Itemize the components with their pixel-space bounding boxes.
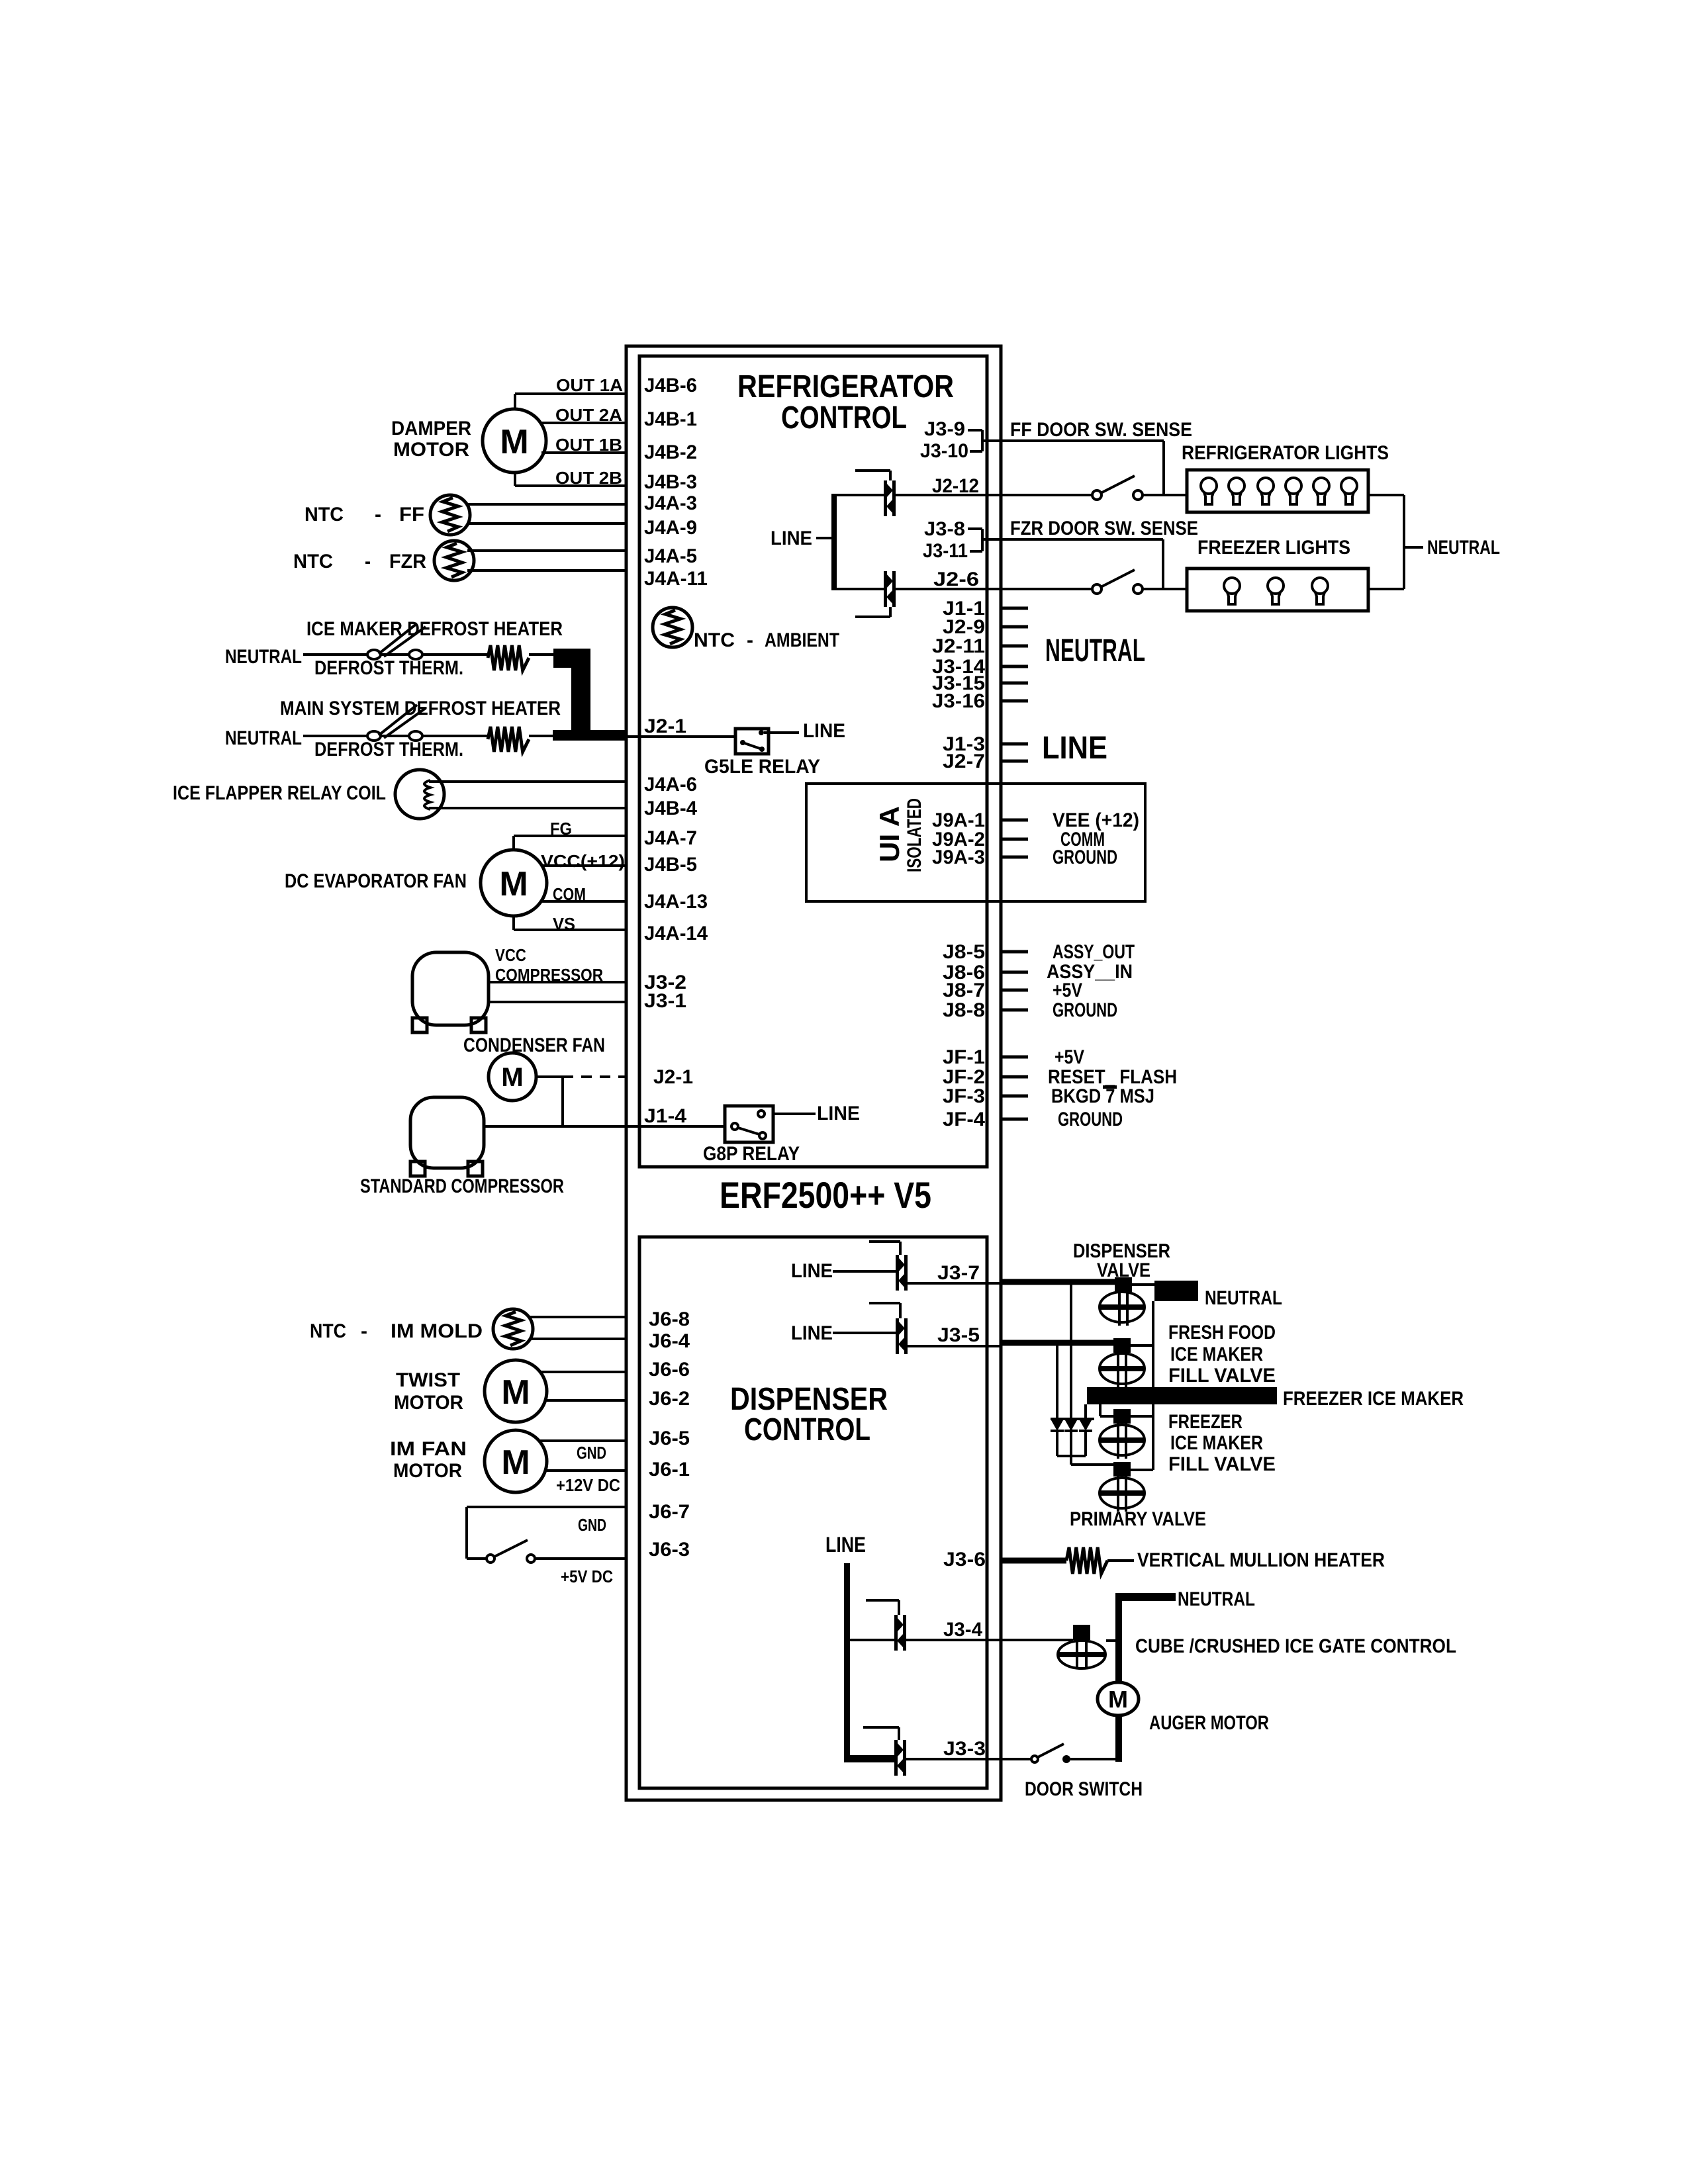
svg-text:J6-3: J6-3 — [649, 1539, 690, 1561]
svg-text:ICE MAKER DEFROST HEATER: ICE MAKER DEFROST HEATER — [306, 618, 563, 640]
pin tick J1-3 — [1001, 743, 1028, 746]
svg-text:M: M — [501, 1063, 523, 1092]
thermistor NTC - IM MOLD — [493, 1309, 533, 1349]
thick freezer ice maker feed bar — [1087, 1387, 1277, 1404]
ice maker defrost switch arm — [379, 623, 426, 657]
svg-text:M: M — [501, 1373, 530, 1412]
svg-text:CONTROL: CONTROL — [744, 1412, 870, 1447]
svg-text:LINE: LINE — [803, 720, 845, 742]
svg-text:+12V DC: +12V DC — [556, 1475, 620, 1495]
refrigerator light bulb 1 — [1201, 478, 1217, 504]
triac J3-3 gate hook — [863, 1727, 899, 1740]
freezer light bulb 2 — [1268, 578, 1284, 604]
freezer light bulb 1 — [1224, 578, 1240, 604]
svg-text:FF: FF — [399, 504, 424, 525]
svg-text:FILL VALVE: FILL VALVE — [1168, 1453, 1276, 1475]
wire LINE to triac J3-5 — [833, 1332, 896, 1334]
triac J3-4 — [894, 1615, 906, 1651]
freezer ice maker fill valve — [1100, 1409, 1145, 1459]
wire NTC FZR to J4A-11 — [467, 569, 626, 572]
svg-text:J3-3: J3-3 — [943, 1738, 986, 1760]
svg-text:J4A-11: J4A-11 — [644, 568, 708, 590]
svg-text:LINE: LINE — [825, 1533, 866, 1557]
svg-text:GND: GND — [577, 1443, 606, 1463]
VCC compressor — [412, 952, 489, 1032]
diode 1 (valve logic) — [1051, 1420, 1064, 1456]
pin tick J2-7 — [1001, 760, 1028, 763]
wire neutral to main defrost switch — [303, 735, 367, 737]
triac J2-12 — [884, 480, 896, 516]
svg-text:J2-7: J2-7 — [943, 751, 985, 772]
outer control board box — [626, 346, 1001, 1800]
wire flapper coil to J4A-6 — [429, 780, 626, 783]
label DISPENSER VALVE — [1073, 1240, 1170, 1281]
wire LINE bus to triac J2-12 — [837, 494, 884, 496]
wire NTC FF to J4A-9 — [467, 522, 626, 525]
svg-text:OUT 2B: OUT 2B — [555, 468, 622, 488]
svg-text:OUT 1B: OUT 1B — [555, 435, 622, 455]
wire J2-1 to G5LE relay — [627, 735, 735, 738]
pin tick J3-16 — [1001, 700, 1028, 703]
label TWIST MOTOR — [394, 1369, 463, 1414]
wire dispenser line down to primary valve — [1071, 1285, 1113, 1465]
svg-text:J4A-13: J4A-13 — [644, 891, 708, 913]
svg-text:J4A-5: J4A-5 — [644, 545, 697, 567]
pin tick J9A-3 — [1001, 856, 1028, 859]
svg-text:REFRIGERATOR: REFRIGERATOR — [737, 369, 954, 404]
refrigerator control inner box — [639, 356, 987, 1167]
wire twist motor to J6-6 — [540, 1371, 626, 1373]
freezer light bulb 3 — [1312, 578, 1328, 604]
svg-text:M: M — [499, 865, 528, 903]
main defrost heater resistor — [488, 727, 529, 752]
svg-text:+5V: +5V — [1053, 979, 1082, 1001]
svg-text:VS: VS — [553, 914, 575, 934]
svg-text:STANDARD COMPRESSOR: STANDARD COMPRESSOR — [360, 1175, 564, 1197]
svg-text:CONTROL: CONTROL — [781, 400, 907, 435]
title REFRIGERATOR CONTROL — [737, 369, 954, 435]
ice maker defrost thermostat contact left — [367, 650, 381, 659]
stub gate valve to auger bus — [1106, 1639, 1115, 1642]
wire VS to J4A-14 — [514, 915, 626, 930]
triac J3-7 — [896, 1255, 908, 1291]
neutral bar (auger bus) — [1115, 1593, 1176, 1601]
svg-text:OUT 2A: OUT 2A — [555, 405, 622, 425]
wire VCC compressor to J3-2 — [489, 981, 626, 983]
svg-text:M: M — [500, 423, 528, 461]
pin tick J2-11 — [1001, 645, 1028, 648]
damper motor M — [483, 409, 546, 473]
dashed wire condenser fan to J2-1 — [563, 1075, 626, 1078]
svg-text:NTC: NTC — [694, 629, 735, 651]
pin tick JF-1 — [1001, 1056, 1028, 1059]
svg-text:J3-9: J3-9 — [924, 418, 965, 440]
thermistor NTC - FZR — [434, 541, 474, 580]
wire LINE bus to triac J3-4 — [850, 1639, 894, 1641]
svg-text:FREEZER LIGHTS: FREEZER LIGHTS — [1197, 537, 1350, 559]
svg-text:-: - — [361, 1320, 367, 1342]
svg-text:J3-6: J3-6 — [943, 1549, 986, 1570]
IM fan motor M — [485, 1430, 547, 1492]
twist motor M — [485, 1360, 547, 1422]
svg-text:J3-16: J3-16 — [932, 690, 985, 712]
svg-text:J4A-3: J4A-3 — [644, 492, 697, 514]
svg-text:FREEZER ICE MAKER: FREEZER ICE MAKER — [1283, 1388, 1464, 1410]
svg-text:J3-10: J3-10 — [920, 440, 968, 462]
fresh food ice maker fill valve — [1100, 1338, 1145, 1387]
svg-text:J4B-1: J4B-1 — [644, 408, 697, 430]
wire FG to J4A-7 — [514, 836, 626, 850]
svg-text:IM FAN: IM FAN — [390, 1438, 467, 1460]
svg-text:OUT 1A: OUT 1A — [556, 375, 623, 395]
wire refrigerator lights to neutral bus — [1368, 494, 1404, 496]
wire condenser fan to junction — [536, 1077, 563, 1126]
wire NTC FF to J4A-3 — [467, 503, 626, 506]
wire door switch to auger bus — [1070, 1758, 1115, 1760]
svg-text:J4A-6: J4A-6 — [644, 774, 697, 796]
svg-text:IM MOLD: IM MOLD — [391, 1320, 483, 1342]
svg-text:J6-7: J6-7 — [649, 1501, 690, 1523]
svg-text:+5V DC: +5V DC — [561, 1567, 613, 1586]
svg-text:ERF2500++ V5: ERF2500++ V5 — [720, 1174, 931, 1216]
condenser fan motor M — [489, 1053, 536, 1101]
pin tick JF-3 — [1001, 1095, 1028, 1098]
svg-text:NEUTRAL: NEUTRAL — [1178, 1588, 1255, 1610]
dispenser control inner box — [639, 1237, 987, 1788]
wire G8P relay to LINE — [773, 1113, 816, 1115]
wire switch to freezer lights — [1143, 588, 1187, 590]
dispenser valve — [1100, 1277, 1145, 1326]
wire VCC compressor to J3-1 — [489, 1001, 626, 1003]
wire VCC(+12) to J4B-5 — [542, 864, 626, 867]
svg-text:J1-4: J1-4 — [644, 1105, 686, 1127]
triac J2-12 gate hook — [855, 471, 890, 480]
label NTC - AMBIENT — [694, 629, 839, 651]
label FRESH FOOD ICE MAKER FILL VALVE — [1168, 1322, 1276, 1387]
svg-text:FRESH FOOD: FRESH FOOD — [1168, 1322, 1276, 1343]
wire flapper coil to J4B-4 — [429, 807, 626, 809]
svg-text:ISOLATED: ISOLATED — [904, 798, 925, 872]
svg-text:GROUND: GROUND — [1058, 1109, 1123, 1130]
ice maker defrost heater resistor — [488, 645, 529, 670]
thick defrost junction bar to J2-1 — [553, 649, 626, 741]
pin tick J9A-1 — [1001, 819, 1028, 822]
wire switch to refrigerator lights — [1143, 494, 1187, 496]
neutral bar (dispenser valve) — [1154, 1281, 1198, 1301]
svg-text:FG: FG — [550, 819, 572, 839]
+5V DC switch — [487, 1540, 535, 1563]
label NTC - FF — [305, 504, 424, 525]
wire between ice maker defrost contacts — [381, 653, 409, 656]
svg-text:J3-4: J3-4 — [943, 1619, 982, 1641]
svg-text:J3-11: J3-11 — [923, 540, 968, 562]
svg-text:AUGER MOTOR: AUGER MOTOR — [1149, 1712, 1269, 1734]
thick wire J3-7 to dispenser valve — [1001, 1279, 1115, 1285]
wire freezer bar to freezer fill valve — [1100, 1404, 1113, 1416]
svg-text:J3-7: J3-7 — [937, 1262, 980, 1284]
svg-text:GROUND: GROUND — [1053, 846, 1117, 868]
ice maker defrost thermostat contact right — [409, 650, 422, 659]
svg-text:VERTICAL MULLION HEATER: VERTICAL MULLION HEATER — [1137, 1549, 1385, 1571]
relay G8P — [725, 1106, 773, 1142]
wire freezer bar down to diode — [1084, 1404, 1087, 1419]
svg-text:ICE MAKER: ICE MAKER — [1170, 1343, 1263, 1365]
diode 2 (valve logic) — [1064, 1420, 1078, 1456]
wire triac J3-4 to cube/crushed valve — [906, 1639, 1073, 1641]
svg-text:J6-1: J6-1 — [649, 1459, 690, 1480]
svg-text:DEFROST THERM.: DEFROST THERM. — [314, 739, 463, 760]
svg-text:NEUTRAL: NEUTRAL — [1427, 537, 1500, 559]
svg-text:AMBIENT: AMBIENT — [765, 629, 839, 651]
svg-text:J9A-3: J9A-3 — [932, 846, 985, 868]
refrigerator light bulb 3 — [1258, 478, 1274, 504]
svg-text:J6-5: J6-5 — [649, 1428, 690, 1449]
wire triac J3-7 to box edge — [906, 1282, 1001, 1285]
triac J3-5 — [896, 1318, 908, 1354]
svg-text:CONDENSER FAN: CONDENSER FAN — [463, 1034, 605, 1056]
wire J2-6 to freezer light switch — [896, 588, 1092, 590]
freezer door switch — [1092, 570, 1143, 594]
svg-text:LINE: LINE — [791, 1322, 833, 1344]
relay G5LE — [735, 729, 769, 754]
thermistor NTC - FF — [430, 495, 470, 535]
svg-text:J6-2: J6-2 — [649, 1388, 690, 1410]
pin tick J9A-2 — [1001, 838, 1028, 841]
svg-text:GND: GND — [578, 1515, 606, 1535]
svg-text:LINE: LINE — [817, 1103, 860, 1124]
triac J3-7 gate hook — [869, 1242, 900, 1255]
svg-text:DOOR SWITCH: DOOR SWITCH — [1025, 1778, 1143, 1800]
svg-text:NTC: NTC — [305, 504, 344, 525]
svg-text:J4A-9: J4A-9 — [644, 517, 697, 539]
svg-text:LINE: LINE — [791, 1260, 833, 1282]
svg-text:G8P RELAY: G8P RELAY — [703, 1143, 800, 1165]
svg-text:J4B-4: J4B-4 — [644, 797, 697, 819]
wire LINE stub — [816, 537, 831, 539]
wire LINE bus to triac J2-6 — [837, 588, 884, 590]
wire NTC IM mold to J6-4 — [530, 1338, 626, 1340]
wire freezer lights to neutral bus — [1368, 588, 1404, 590]
svg-text:NEUTRAL: NEUTRAL — [1045, 633, 1145, 668]
svg-text:FF DOOR SW. SENSE: FF DOOR SW. SENSE — [1010, 419, 1192, 441]
label BKGD / MSJ — [1051, 1085, 1154, 1107]
label FREEZER ICE MAKER FILL VALVE — [1168, 1411, 1276, 1475]
freezer lights box — [1187, 569, 1368, 611]
main defrost switch arm — [379, 705, 426, 738]
refrigerator light bulb 4 — [1286, 478, 1301, 504]
UI A isolated box — [806, 784, 1145, 901]
refrigerator light bulb 2 — [1229, 478, 1244, 504]
svg-text:J6-6: J6-6 — [649, 1359, 690, 1381]
ice flapper relay coil — [395, 770, 444, 819]
wire G5LE relay to LINE — [764, 731, 799, 734]
wire OUT 2B to J4B-3 — [515, 472, 626, 486]
wire triac J3-3 to door switch — [906, 1758, 1031, 1760]
label NTC - FZR — [293, 551, 426, 572]
svg-text:J3-8: J3-8 — [924, 518, 965, 540]
pin tick J8-7 — [1001, 989, 1028, 992]
wire IM fan motor to J6-1 — [545, 1469, 626, 1472]
wire OUT 2A to J4B-1 — [541, 422, 626, 424]
DC evaporator fan motor M — [481, 850, 547, 916]
label VCC COMPRESSOR — [495, 945, 603, 985]
label NTC - IM MOLD — [310, 1320, 483, 1342]
wire neutral to ice maker defrost switch — [303, 653, 367, 656]
wire twist motor to J6-2 — [545, 1399, 626, 1402]
wire +5V DC switch to J6-3 — [535, 1557, 626, 1560]
svg-text:J4B-2: J4B-2 — [644, 441, 697, 463]
svg-text:-: - — [365, 551, 371, 572]
svg-text:NEUTRAL: NEUTRAL — [225, 727, 302, 749]
wire ice maker heater to junction bar — [529, 653, 555, 656]
wire mullion heater to label — [1107, 1559, 1134, 1562]
svg-text:MOTOR: MOTOR — [393, 439, 469, 461]
neutral bus vertical (lights) — [1403, 495, 1405, 589]
wire contact to main heater — [422, 735, 488, 737]
svg-text:ICE FLAPPER RELAY COIL: ICE FLAPPER RELAY COIL — [173, 782, 386, 804]
wire J2-12 to refrigerator light switch — [896, 494, 1092, 496]
svg-text:NEUTRAL: NEUTRAL — [1205, 1287, 1282, 1309]
svg-text:LINE: LINE — [1042, 731, 1107, 766]
svg-text:J4B-6: J4B-6 — [644, 375, 697, 396]
triac J3-3 — [894, 1740, 906, 1776]
refrigerator lights box — [1187, 470, 1368, 512]
svg-text:DC EVAPORATOR FAN: DC EVAPORATOR FAN — [285, 870, 467, 892]
wire FF door switch sense — [982, 441, 1164, 495]
bracket J3-8/J3-11 — [968, 529, 982, 551]
svg-text:TWIST: TWIST — [396, 1369, 460, 1391]
svg-text:J4B-3: J4B-3 — [644, 471, 697, 493]
label DAMPER MOTOR — [391, 418, 471, 461]
svg-text:VCC(+12): VCC(+12) — [541, 851, 625, 871]
triac J2-6 — [884, 571, 896, 607]
refrigerator light bulb 6 — [1341, 478, 1357, 504]
stub dispenser valve to neutral bus — [1132, 1283, 1154, 1286]
thermistor NTC - AMBIENT — [653, 608, 692, 647]
svg-text:J8-8: J8-8 — [943, 999, 985, 1021]
svg-text:FREEZER: FREEZER — [1168, 1411, 1243, 1433]
refrigerator light bulb 5 — [1313, 478, 1329, 504]
wire fresh food line down to diode — [1056, 1345, 1058, 1419]
wire FZR door switch sense — [982, 539, 1163, 589]
main defrost thermostat contact left — [367, 731, 381, 741]
svg-text:J2-6: J2-6 — [933, 569, 979, 590]
svg-text:J3-1: J3-1 — [644, 990, 686, 1012]
svg-text:LINE: LINE — [771, 527, 812, 549]
pin tick JF-2 — [1001, 1075, 1028, 1079]
diode pack top bar — [1051, 1418, 1094, 1420]
cube/crushed ice gate valve — [1058, 1625, 1106, 1668]
wire standard compressor to J1-4 and G8P relay — [484, 1125, 725, 1128]
svg-text:ASSY_OUT: ASSY_OUT — [1053, 941, 1135, 963]
svg-text:MOTOR: MOTOR — [394, 1392, 463, 1414]
svg-text:NTC: NTC — [310, 1320, 346, 1342]
svg-text:FZR DOOR SW. SENSE: FZR DOOR SW. SENSE — [1010, 518, 1198, 539]
svg-text:M: M — [1108, 1686, 1128, 1713]
auger neutral bus vertical — [1115, 1593, 1122, 1762]
svg-text:J4A-7: J4A-7 — [644, 827, 697, 849]
main defrost thermostat contact right — [409, 731, 422, 741]
vertical mullion heater resistor — [1066, 1547, 1107, 1574]
svg-text:REFRIGERATOR LIGHTS: REFRIGERATOR LIGHTS — [1182, 442, 1389, 464]
wire LINE to triac J3-7 — [833, 1270, 896, 1273]
pin tick J2-9 — [1001, 625, 1028, 629]
wire triac J3-5 to box edge — [906, 1345, 1001, 1347]
svg-text:VCC: VCC — [495, 945, 526, 965]
svg-text:+5V: +5V — [1055, 1046, 1084, 1068]
svg-text:NTC: NTC — [293, 551, 333, 572]
title DISPENSER CONTROL — [730, 1382, 888, 1447]
auger motor M — [1098, 1682, 1139, 1715]
standard compressor — [410, 1097, 484, 1176]
thick wire J3-5 to fresh food fill valve — [1001, 1340, 1113, 1346]
svg-text:UI A: UI A — [874, 806, 905, 862]
diode pack bottom bar — [1057, 1455, 1086, 1457]
svg-text:ICE MAKER: ICE MAKER — [1170, 1432, 1263, 1454]
wire contact to ice maker heater — [422, 653, 488, 656]
svg-text:J6-4: J6-4 — [649, 1330, 690, 1352]
wire NTC IM mold to J6-8 — [530, 1316, 626, 1318]
triac J2-6 gate hook — [855, 607, 890, 617]
pin tick J1-1 — [1001, 607, 1028, 610]
pin tick J8-6 — [1001, 971, 1028, 974]
svg-text:-: - — [375, 504, 381, 525]
svg-text:J8-7: J8-7 — [943, 979, 985, 1001]
pin tick JF-4 — [1001, 1118, 1028, 1121]
svg-text:DEFROST THERM.: DEFROST THERM. — [314, 657, 463, 679]
triac J3-5 gate hook — [869, 1303, 900, 1318]
svg-text:M: M — [501, 1443, 530, 1482]
wire J6-7 ground loop — [467, 1507, 626, 1559]
svg-text:-: - — [747, 629, 753, 651]
dispenser LINE bus bottom corner — [844, 1755, 896, 1762]
wire main heater to junction bar — [529, 735, 555, 737]
wire COM to J4A-13 — [541, 900, 626, 903]
bracket J3-9/J3-10 — [968, 430, 982, 451]
LINE bus vertical — [831, 494, 837, 590]
diode 3 (valve logic) — [1079, 1420, 1092, 1456]
primary valve — [1100, 1462, 1145, 1512]
svg-text:JF-3: JF-3 — [943, 1085, 985, 1107]
svg-text:MAIN SYSTEM DEFROST HEATER: MAIN SYSTEM DEFROST HEATER — [280, 698, 561, 719]
svg-text:DAMPER: DAMPER — [391, 418, 471, 439]
triac J3-4 gate hook — [866, 1600, 899, 1615]
svg-text:J2-1: J2-1 — [644, 715, 686, 737]
svg-text:FILL VALVE: FILL VALVE — [1168, 1365, 1276, 1387]
svg-text:J6-8: J6-8 — [649, 1308, 690, 1330]
svg-text:J4A-14: J4A-14 — [644, 923, 708, 944]
wire between main defrost contacts — [381, 735, 409, 737]
wire neutral stub — [1404, 546, 1423, 549]
stub freezer valve to neutral bus — [1131, 1415, 1153, 1418]
svg-text:COM: COM — [553, 884, 586, 904]
wire OUT 1B to J4B-2 — [541, 451, 626, 454]
svg-text:NEUTRAL: NEUTRAL — [225, 646, 302, 668]
freezer door switch (auger) — [1031, 1744, 1070, 1763]
wire IM fan motor to J6-5 — [539, 1439, 626, 1442]
pin tick J3-14 — [1001, 665, 1028, 668]
svg-text:J4B-5: J4B-5 — [644, 854, 697, 876]
svg-text:CUBE /CRUSHED ICE GATE CONTROL: CUBE /CRUSHED ICE GATE CONTROL — [1135, 1635, 1456, 1657]
pin tick J8-5 — [1001, 950, 1028, 954]
stub fresh food valve to neutral bus — [1131, 1344, 1153, 1347]
pin tick J8-8 — [1001, 1009, 1028, 1012]
wire OUT 1A to J4B-6 — [515, 394, 626, 410]
svg-text:J2-1: J2-1 — [653, 1066, 693, 1088]
stub primary valve to neutral bus — [1131, 1469, 1153, 1471]
svg-text:GROUND: GROUND — [1053, 999, 1117, 1021]
label IM FAN MOTOR — [390, 1438, 467, 1482]
